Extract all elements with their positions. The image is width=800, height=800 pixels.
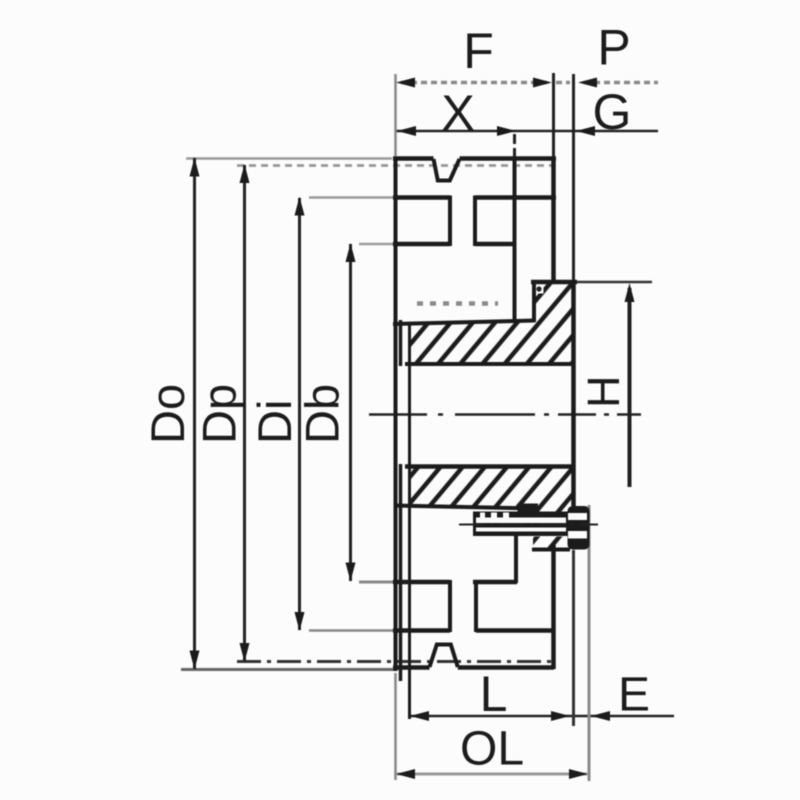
svg-text:G: G	[593, 84, 632, 140]
extension line flange face down (x=573.5)	[572, 550, 575, 726]
dimension line X/G	[396, 130, 658, 133]
Di bottom extension (gray)	[309, 629, 394, 632]
arrow Db bottom	[346, 563, 356, 582]
dimension vertical Di	[298, 198, 301, 630]
window verticals (top half)	[448, 196, 452, 247]
bushing left face	[399, 320, 403, 366]
svg-text:Di: Di	[248, 400, 301, 444]
white notch in flange corner	[534, 284, 544, 294]
bushing left face lower segment	[399, 464, 403, 681]
rim right face (bottom)	[551, 545, 556, 669]
arrow Db top	[346, 243, 356, 262]
dimension line OL (gray)	[397, 773, 587, 776]
Dp pitch line top (gray dashed)	[237, 164, 555, 167]
extension line X right (dashed, x=514.5)	[513, 134, 516, 158]
flange left edge	[532, 280, 536, 322]
dimension line F/P (gray dashed)	[401, 81, 548, 84]
svg-text:Dp: Dp	[193, 384, 246, 444]
H extension line	[577, 281, 652, 284]
Db top extension (gray)	[359, 243, 393, 246]
arrow E left	[591, 711, 610, 721]
dimension vertical Dp	[243, 165, 246, 661]
arrow H top	[625, 283, 635, 302]
screw thread ticks (white notches)	[480, 513, 485, 519]
extension line left (gray, x=395.5)	[394, 74, 397, 156]
hub step vertical (bottom)	[514, 535, 518, 583]
arrow Dp bottom	[240, 643, 250, 662]
arrow OL right	[569, 769, 588, 779]
arrow L left	[410, 711, 429, 721]
extension line screw head right (gray, x=589)	[588, 505, 591, 781]
rim right face (top)	[551, 157, 556, 283]
Db bottom extension (gray)	[359, 581, 394, 584]
dimension line L/E	[409, 715, 674, 718]
arrow L right	[551, 711, 570, 721]
Do bottom extension	[181, 668, 395, 671]
V-groove top	[434, 159, 460, 181]
arrow Di top	[295, 197, 305, 216]
dimension vertical Db	[349, 244, 352, 581]
window bottom edges (top half)	[393, 242, 450, 247]
hatched taper-bushing upper region	[410, 283, 573, 362]
cap screw boss	[518, 504, 539, 514]
rim bottom edge	[393, 665, 430, 670]
arrow Do bottom	[190, 651, 200, 670]
arrow X left	[397, 126, 416, 136]
svg-text:P: P	[597, 20, 630, 76]
svg-text:H: H	[578, 376, 629, 409]
flange bottom edge	[532, 548, 570, 552]
hatched flange block under screw	[533, 537, 569, 549]
V-groove bottom	[430, 645, 458, 668]
svg-text:E: E	[618, 669, 650, 722]
screw head	[568, 506, 590, 550]
arrow F right	[533, 78, 552, 88]
dimension vertical Do	[193, 158, 196, 669]
bore bottom edge	[405, 464, 572, 469]
arrow Do top	[190, 158, 200, 177]
svg-text:OL: OL	[460, 723, 524, 776]
svg-text:X: X	[441, 85, 474, 141]
extension line flange face up (x=573.5)	[572, 74, 575, 281]
svg-text:Db: Db	[296, 384, 349, 444]
window top edges (bottom half)	[393, 580, 450, 585]
rim inner right edge	[513, 158, 517, 323]
bushing bottom line	[394, 506, 533, 509]
Di top extension (gray)	[309, 196, 393, 199]
screw axis (dash-dot)	[459, 524, 598, 526]
dimension vertical H	[628, 288, 632, 487]
rim top edge	[393, 156, 434, 161]
hidden dotted line (gray)	[417, 301, 498, 306]
arrow X right	[497, 126, 516, 136]
arrow G left	[576, 126, 595, 136]
window bottom / rim inner surface (bottom half)	[393, 628, 450, 633]
arrow P left	[578, 78, 597, 88]
arrow Dp top	[240, 164, 250, 183]
extension line right face up (x=553.5)	[552, 73, 555, 158]
arrow F left	[396, 78, 415, 88]
bushing barrel inner edge / L extension line (x=409.5)	[408, 322, 411, 719]
cap screw shank	[473, 512, 568, 537]
arrow OL left	[396, 769, 415, 779]
Dp pitch line bottom (dash-dot)	[237, 660, 552, 663]
svg-text:Do: Do	[141, 384, 194, 444]
rim inner surface / window top edges	[393, 195, 450, 200]
svg-text:F: F	[463, 23, 494, 79]
flange right face	[571, 281, 576, 506]
pulley left face	[394, 157, 398, 671]
flange top edge	[531, 280, 577, 285]
arrow Di bottom	[295, 612, 305, 631]
svg-text:L: L	[480, 666, 508, 722]
centerline (dash-dot)	[369, 413, 641, 416]
hatched taper-bushing lower region	[410, 465, 573, 513]
flange corner dot	[536, 286, 541, 291]
bore top edge	[405, 362, 572, 366]
window verticals (bottom half)	[448, 580, 452, 632]
Do top extension (gray)	[186, 157, 392, 160]
bushing top line	[393, 321, 535, 325]
